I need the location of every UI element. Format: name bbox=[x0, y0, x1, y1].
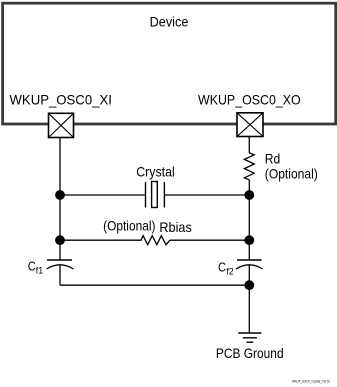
svg-text:Crystal: Crystal bbox=[136, 163, 175, 179]
svg-text:Rbias: Rbias bbox=[159, 219, 191, 235]
svg-text:Rd: Rd bbox=[265, 151, 281, 167]
junction node E dot bbox=[244, 280, 254, 290]
crystal Y1 body bbox=[152, 182, 158, 208]
wire capacitor Cf1 to bottom rail bbox=[59, 265, 61, 285]
svg-text:Device: Device bbox=[150, 14, 189, 30]
junction node A dot bbox=[55, 190, 65, 200]
device block outline U1 bbox=[3, 3, 336, 124]
wire node C to capacitor Cf1 bbox=[59, 240, 61, 260]
capacitor Cf2 top plate bbox=[237, 259, 262, 261]
svg-text:WKUP_OSC0_XO: WKUP_OSC0_XO bbox=[198, 92, 301, 108]
pin symbol WKUP_OSC0_XI bbox=[49, 113, 74, 137]
wire resistor Rbias to node D bbox=[170, 239, 249, 241]
ground symbol bar 3 bbox=[247, 341, 254, 343]
svg-text:f2: f2 bbox=[226, 267, 233, 278]
ground symbol bar 2 bbox=[243, 337, 257, 339]
junction node C dot bbox=[55, 235, 65, 245]
resistor Rbias bbox=[141, 236, 170, 245]
pin symbol WKUP_OSC0_XO bbox=[237, 113, 263, 137]
svg-text:C: C bbox=[28, 260, 36, 274]
wire crystal right plate to node B bbox=[164, 194, 249, 196]
capacitor Cf1 curved plate bbox=[47, 265, 74, 269]
wire bottom rail Cf1 to node E bbox=[60, 284, 249, 286]
svg-text:C: C bbox=[218, 261, 226, 275]
wire node A to node C bbox=[59, 195, 61, 240]
wire resistor Rd to node B bbox=[248, 180, 250, 195]
junction node D dot bbox=[244, 235, 254, 245]
svg-text:PCB Ground: PCB Ground bbox=[216, 345, 284, 361]
junction node B dot bbox=[244, 190, 254, 200]
wire node B to node D bbox=[248, 195, 250, 240]
wire XI pin to crystal node A bbox=[59, 137, 61, 195]
crystal Y1 right plate bbox=[163, 182, 165, 208]
svg-text:f1: f1 bbox=[36, 266, 43, 277]
svg-text:WKUP_OSC0_XI: WKUP_OSC0_XI bbox=[10, 92, 112, 108]
svg-text:(Optional): (Optional) bbox=[103, 218, 155, 234]
ground symbol bar 1 bbox=[238, 332, 261, 334]
wire XO pin to resistor Rd bbox=[248, 137, 250, 154]
resistor Rd bbox=[244, 153, 254, 180]
svg-text:(Optional): (Optional) bbox=[265, 166, 318, 182]
svg-text:WKUP_OSC0_Crystal_Ckt-01: WKUP_OSC0_Crystal_Ckt-01 bbox=[292, 379, 331, 384]
wire node D to capacitor Cf2 bbox=[248, 240, 250, 260]
capacitor Cf1 top plate bbox=[47, 259, 72, 261]
crystal Y1 left plate bbox=[145, 182, 147, 208]
capacitor Cf2 curved plate bbox=[236, 265, 263, 269]
wire capacitor Cf2 to node E bbox=[248, 265, 250, 285]
wire node A to crystal left plate bbox=[60, 194, 146, 196]
wire node E to ground bbox=[248, 285, 250, 333]
wire node C to resistor Rbias bbox=[60, 239, 142, 241]
